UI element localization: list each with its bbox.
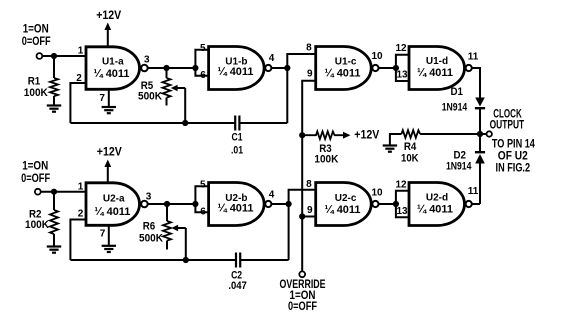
wire junction to R6: [166, 204, 168, 221]
svg-text:6: 6: [200, 207, 206, 218]
input terminal IN1: [37, 53, 43, 59]
svg-text:500K: 500K: [138, 91, 162, 103]
node junction U1-b out / C1 / U1-c pin8: [284, 65, 290, 71]
wire R4 to clock node: [420, 133, 480, 135]
diode D2: [475, 134, 485, 204]
node clock output junction: [477, 131, 483, 137]
wire feedback line row1 to C1: [70, 122, 235, 124]
svg-text:10: 10: [371, 51, 383, 62]
wire U1-d output to D1: [472, 68, 480, 98]
svg-text:0=OFF: 0=OFF: [21, 173, 50, 185]
resistor R1: [50, 78, 58, 96]
wire U2-b input bracket: [195, 186, 208, 212]
svg-text:3: 3: [144, 54, 150, 65]
svg-text:5: 5: [200, 180, 206, 191]
svg-text:¼ 4011: ¼ 4011: [218, 66, 254, 78]
wire U1-c output to U1-d inputs: [379, 67, 396, 69]
svg-text:3: 3: [146, 192, 152, 203]
node junction U2-c pin9 / override net: [299, 213, 305, 219]
node junction U2-d inputs: [393, 201, 399, 207]
svg-text:10K: 10K: [401, 152, 419, 164]
wire U1-b output to junction: [271, 67, 287, 69]
gate U2-b: [209, 183, 272, 226]
svg-text:1=ON: 1=ON: [22, 161, 48, 173]
power +12V (U1-a): [96, 10, 121, 47]
wire U1-d input bracket: [396, 55, 409, 81]
wire U2-c output to U2-d inputs: [379, 203, 396, 205]
node junction input2/R2: [51, 189, 57, 195]
svg-text:U2-c: U2-c: [335, 193, 357, 204]
svg-text:12: 12: [395, 43, 407, 54]
ground (R4): [383, 146, 397, 152]
node junction U2-b inputs: [192, 201, 198, 207]
arrow to +12V (R3): [343, 132, 351, 139]
svg-text:+12V: +12V: [354, 129, 379, 141]
svg-text:R4: R4: [404, 141, 417, 153]
svg-text:10: 10: [371, 187, 383, 198]
svg-text:C1: C1: [232, 132, 243, 144]
resistor R4: [402, 130, 421, 138]
svg-text:1=ON: 1=ON: [290, 290, 316, 302]
svg-text:0=OFF: 0=OFF: [288, 301, 317, 313]
wire U2-c pin9 stub: [302, 216, 316, 218]
svg-text:9: 9: [307, 205, 313, 216]
gate U2-d: [409, 183, 472, 226]
svg-text:4: 4: [269, 190, 275, 201]
wire riser C2 to U2-c pin8: [289, 190, 316, 260]
terminal OVERRIDE: [299, 271, 305, 277]
input terminal IN2: [35, 189, 41, 195]
svg-text:TO PIN 14: TO PIN 14: [492, 138, 535, 150]
svg-text:7: 7: [100, 229, 106, 240]
svg-text:¼ 4011: ¼ 4011: [94, 68, 130, 80]
svg-text:8: 8: [306, 179, 312, 190]
svg-text:500K: 500K: [139, 232, 163, 244]
wire U1-b input bracket: [195, 50, 208, 76]
svg-text:OUTPUT: OUTPUT: [490, 119, 525, 131]
svg-text:1N914: 1N914: [446, 161, 472, 173]
wire U1-a pin7 to ground: [108, 89, 110, 106]
svg-text:+12V: +12V: [96, 10, 121, 22]
svg-text:7: 7: [99, 93, 105, 104]
capacitor C1: [235, 116, 239, 131]
svg-text:D2: D2: [453, 149, 466, 161]
wire input1 terminal to U1-a pin1: [42, 55, 86, 57]
wire U1-a pin2 feedback riser: [70, 83, 86, 123]
gate U2-c: [316, 183, 379, 226]
svg-text:R6: R6: [143, 220, 156, 232]
ground (U1-a pin 7): [102, 107, 116, 113]
potentiometer R6: [163, 221, 186, 260]
node junction R5 top: [163, 65, 169, 71]
svg-text:U1-a: U1-a: [102, 57, 124, 68]
capacitor C2: [236, 253, 240, 268]
svg-text:U1-c: U1-c: [335, 56, 357, 67]
wire junction to R1: [53, 56, 55, 78]
svg-text:D1: D1: [450, 86, 463, 98]
node junction U1-b inputs: [192, 65, 198, 71]
node junction R6 top: [164, 201, 170, 207]
wire input2 terminal to U2-a pin1: [41, 191, 86, 193]
diode D1: [475, 98, 485, 135]
wire ground to R4: [390, 134, 402, 145]
wire riser C1 to U1-c pin8: [287, 54, 315, 123]
svg-text:4: 4: [269, 53, 275, 64]
svg-text:¼ 4011: ¼ 4011: [325, 204, 361, 216]
node junction R3 / override net: [299, 132, 305, 138]
svg-text:U1-d: U1-d: [426, 56, 448, 67]
gate U1-d: [409, 47, 472, 90]
wire junction to R5: [166, 68, 168, 78]
wire C1 to riser: [239, 122, 287, 124]
node junction R5 wiper to feedback: [182, 120, 188, 126]
svg-text:100K: 100K: [314, 154, 338, 166]
gate U2-a: [86, 183, 148, 226]
svg-text:¼ 4011: ¼ 4011: [94, 206, 130, 218]
wire junction to R2: [53, 192, 55, 210]
svg-text:11: 11: [468, 186, 479, 197]
power +12V (U2-a): [97, 147, 122, 183]
svg-text:¼ 4011: ¼ 4011: [218, 203, 254, 215]
svg-text:100K: 100K: [24, 87, 48, 99]
svg-text:12: 12: [395, 179, 407, 190]
svg-text:11: 11: [468, 52, 479, 63]
ground (R2): [47, 247, 61, 253]
svg-text:1N914: 1N914: [442, 102, 468, 114]
svg-text:U2-a: U2-a: [103, 193, 125, 204]
svg-text:IN FIG.2: IN FIG.2: [496, 162, 531, 174]
svg-text:100K: 100K: [25, 219, 49, 231]
potentiometer R5: [163, 78, 186, 123]
wire U2-b output to junction: [271, 203, 288, 205]
node junction U2-b out / C2 / U2-c pin8: [286, 201, 292, 207]
svg-text:¼ 4011: ¼ 4011: [325, 67, 361, 79]
wire U2-a pin2 feedback riser: [70, 220, 86, 261]
svg-text:13: 13: [396, 69, 408, 80]
resistor R3: [302, 131, 344, 139]
svg-text:1=ON: 1=ON: [23, 24, 49, 36]
wire C2 to riser: [240, 259, 288, 261]
wire U1-c pin9 to override net: [302, 81, 316, 272]
node junction input1/R1: [51, 53, 57, 59]
svg-text:OVERRIDE: OVERRIDE: [280, 279, 326, 291]
wire node to clock terminal: [480, 133, 486, 135]
node junction U1-d inputs: [393, 65, 399, 71]
svg-text:U2-d: U2-d: [426, 193, 448, 204]
gate U1-a: [86, 47, 148, 90]
wire R2 to ground: [53, 234, 55, 246]
ground (U2-a pin 7): [102, 246, 116, 252]
terminal CLOCK OUTPUT: [487, 131, 492, 136]
svg-text:¼ 4011: ¼ 4011: [417, 204, 453, 216]
svg-text:9: 9: [307, 69, 313, 80]
svg-text:+12V: +12V: [97, 147, 122, 159]
svg-text:5: 5: [200, 43, 206, 54]
wire U2-a output to U2-b input: [148, 203, 196, 205]
svg-text:R1: R1: [28, 76, 41, 88]
wire U2-a pin7 to ground: [108, 225, 110, 245]
svg-text:¼ 4011: ¼ 4011: [417, 67, 453, 79]
gate U1-c: [316, 47, 379, 90]
svg-text:13: 13: [396, 206, 408, 217]
svg-text:1: 1: [78, 181, 84, 192]
svg-text:8: 8: [306, 42, 312, 53]
svg-text:.01: .01: [231, 144, 243, 156]
ground (R1): [47, 106, 61, 112]
svg-text:1: 1: [78, 46, 84, 57]
svg-text:2: 2: [78, 209, 84, 220]
wire U1-a output to U1-b input: [148, 67, 196, 69]
svg-text:.047: .047: [228, 280, 247, 292]
wire feedback line row2 to C2: [70, 259, 236, 261]
svg-text:OF U2: OF U2: [498, 151, 528, 163]
node junction R6 wiper to feedback: [183, 257, 189, 263]
wire U2-d input bracket: [396, 191, 409, 218]
svg-text:0=OFF: 0=OFF: [22, 36, 51, 48]
resistor R2: [50, 210, 58, 234]
wire R1 to ground: [53, 96, 55, 105]
gate U1-b: [209, 47, 272, 90]
svg-text:6: 6: [200, 70, 206, 81]
wire D2 to U2-d output: [472, 203, 480, 205]
